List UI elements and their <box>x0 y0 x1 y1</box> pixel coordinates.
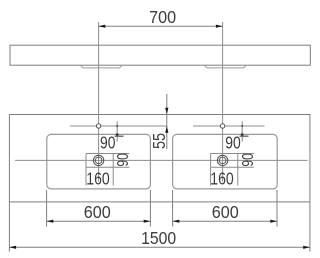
dim 90 terminator dots right <box>241 125 243 127</box>
svg-text:160: 160 <box>86 168 110 188</box>
svg-text:90: 90 <box>115 153 132 167</box>
dimension 1500 line <box>9 246 310 248</box>
drain left <box>93 155 103 165</box>
basin underside tab right (front view) <box>205 65 247 68</box>
svg-text:90: 90 <box>100 132 116 152</box>
dim 90 terminator dots left <box>116 125 118 127</box>
dimension 90 faucet line right <box>241 122 243 142</box>
faucet hole right <box>220 124 224 128</box>
dimension 1500 arrows <box>9 246 16 249</box>
dimension 55 arrow down <box>165 108 168 115</box>
dimension 55 line <box>166 94 168 149</box>
svg-text:55: 55 <box>149 133 169 149</box>
svg-text:600: 600 <box>84 202 111 222</box>
basin right outline <box>173 134 278 189</box>
countertop plan view outline <box>9 115 310 202</box>
dimension 90 faucet line left <box>116 122 118 142</box>
horizontal centerline through drains <box>15 159 308 161</box>
horizontal centerline right faucet <box>193 125 265 127</box>
dimension 600 left extension lines <box>46 190 48 227</box>
dimension 700 arrow left <box>99 25 106 28</box>
dimension 600 right extension lines <box>172 190 174 227</box>
basin left outline <box>47 134 151 189</box>
countertop front view bar <box>10 45 310 65</box>
svg-text:600: 600 <box>212 202 239 222</box>
drain right <box>217 155 227 165</box>
dimension 700 arrow right <box>216 25 223 28</box>
svg-text:90: 90 <box>240 153 257 167</box>
svg-text:90: 90 <box>225 132 241 152</box>
svg-text:1500: 1500 <box>141 228 176 248</box>
svg-text:160: 160 <box>210 168 234 188</box>
dimension 55 arrow up <box>165 126 168 133</box>
svg-text:700: 700 <box>149 7 176 27</box>
vertical centerline right faucet <box>222 22 224 182</box>
dimension 600 right arrows <box>173 220 180 223</box>
vertical centerline left faucet <box>98 22 100 182</box>
dimension 600 left arrows <box>47 220 54 223</box>
dimension 1500 extension lines <box>8 202 10 252</box>
faucet hole left <box>96 124 100 128</box>
dimension 600 left line <box>47 220 151 222</box>
horizontal centerline left faucet <box>70 125 168 127</box>
basin underside tab left (front view) <box>81 65 123 68</box>
dimension 600 right line <box>173 220 277 222</box>
drain dimension box left <box>86 154 129 186</box>
dimension 700 line <box>99 25 223 27</box>
drain dimension box right <box>211 154 254 186</box>
